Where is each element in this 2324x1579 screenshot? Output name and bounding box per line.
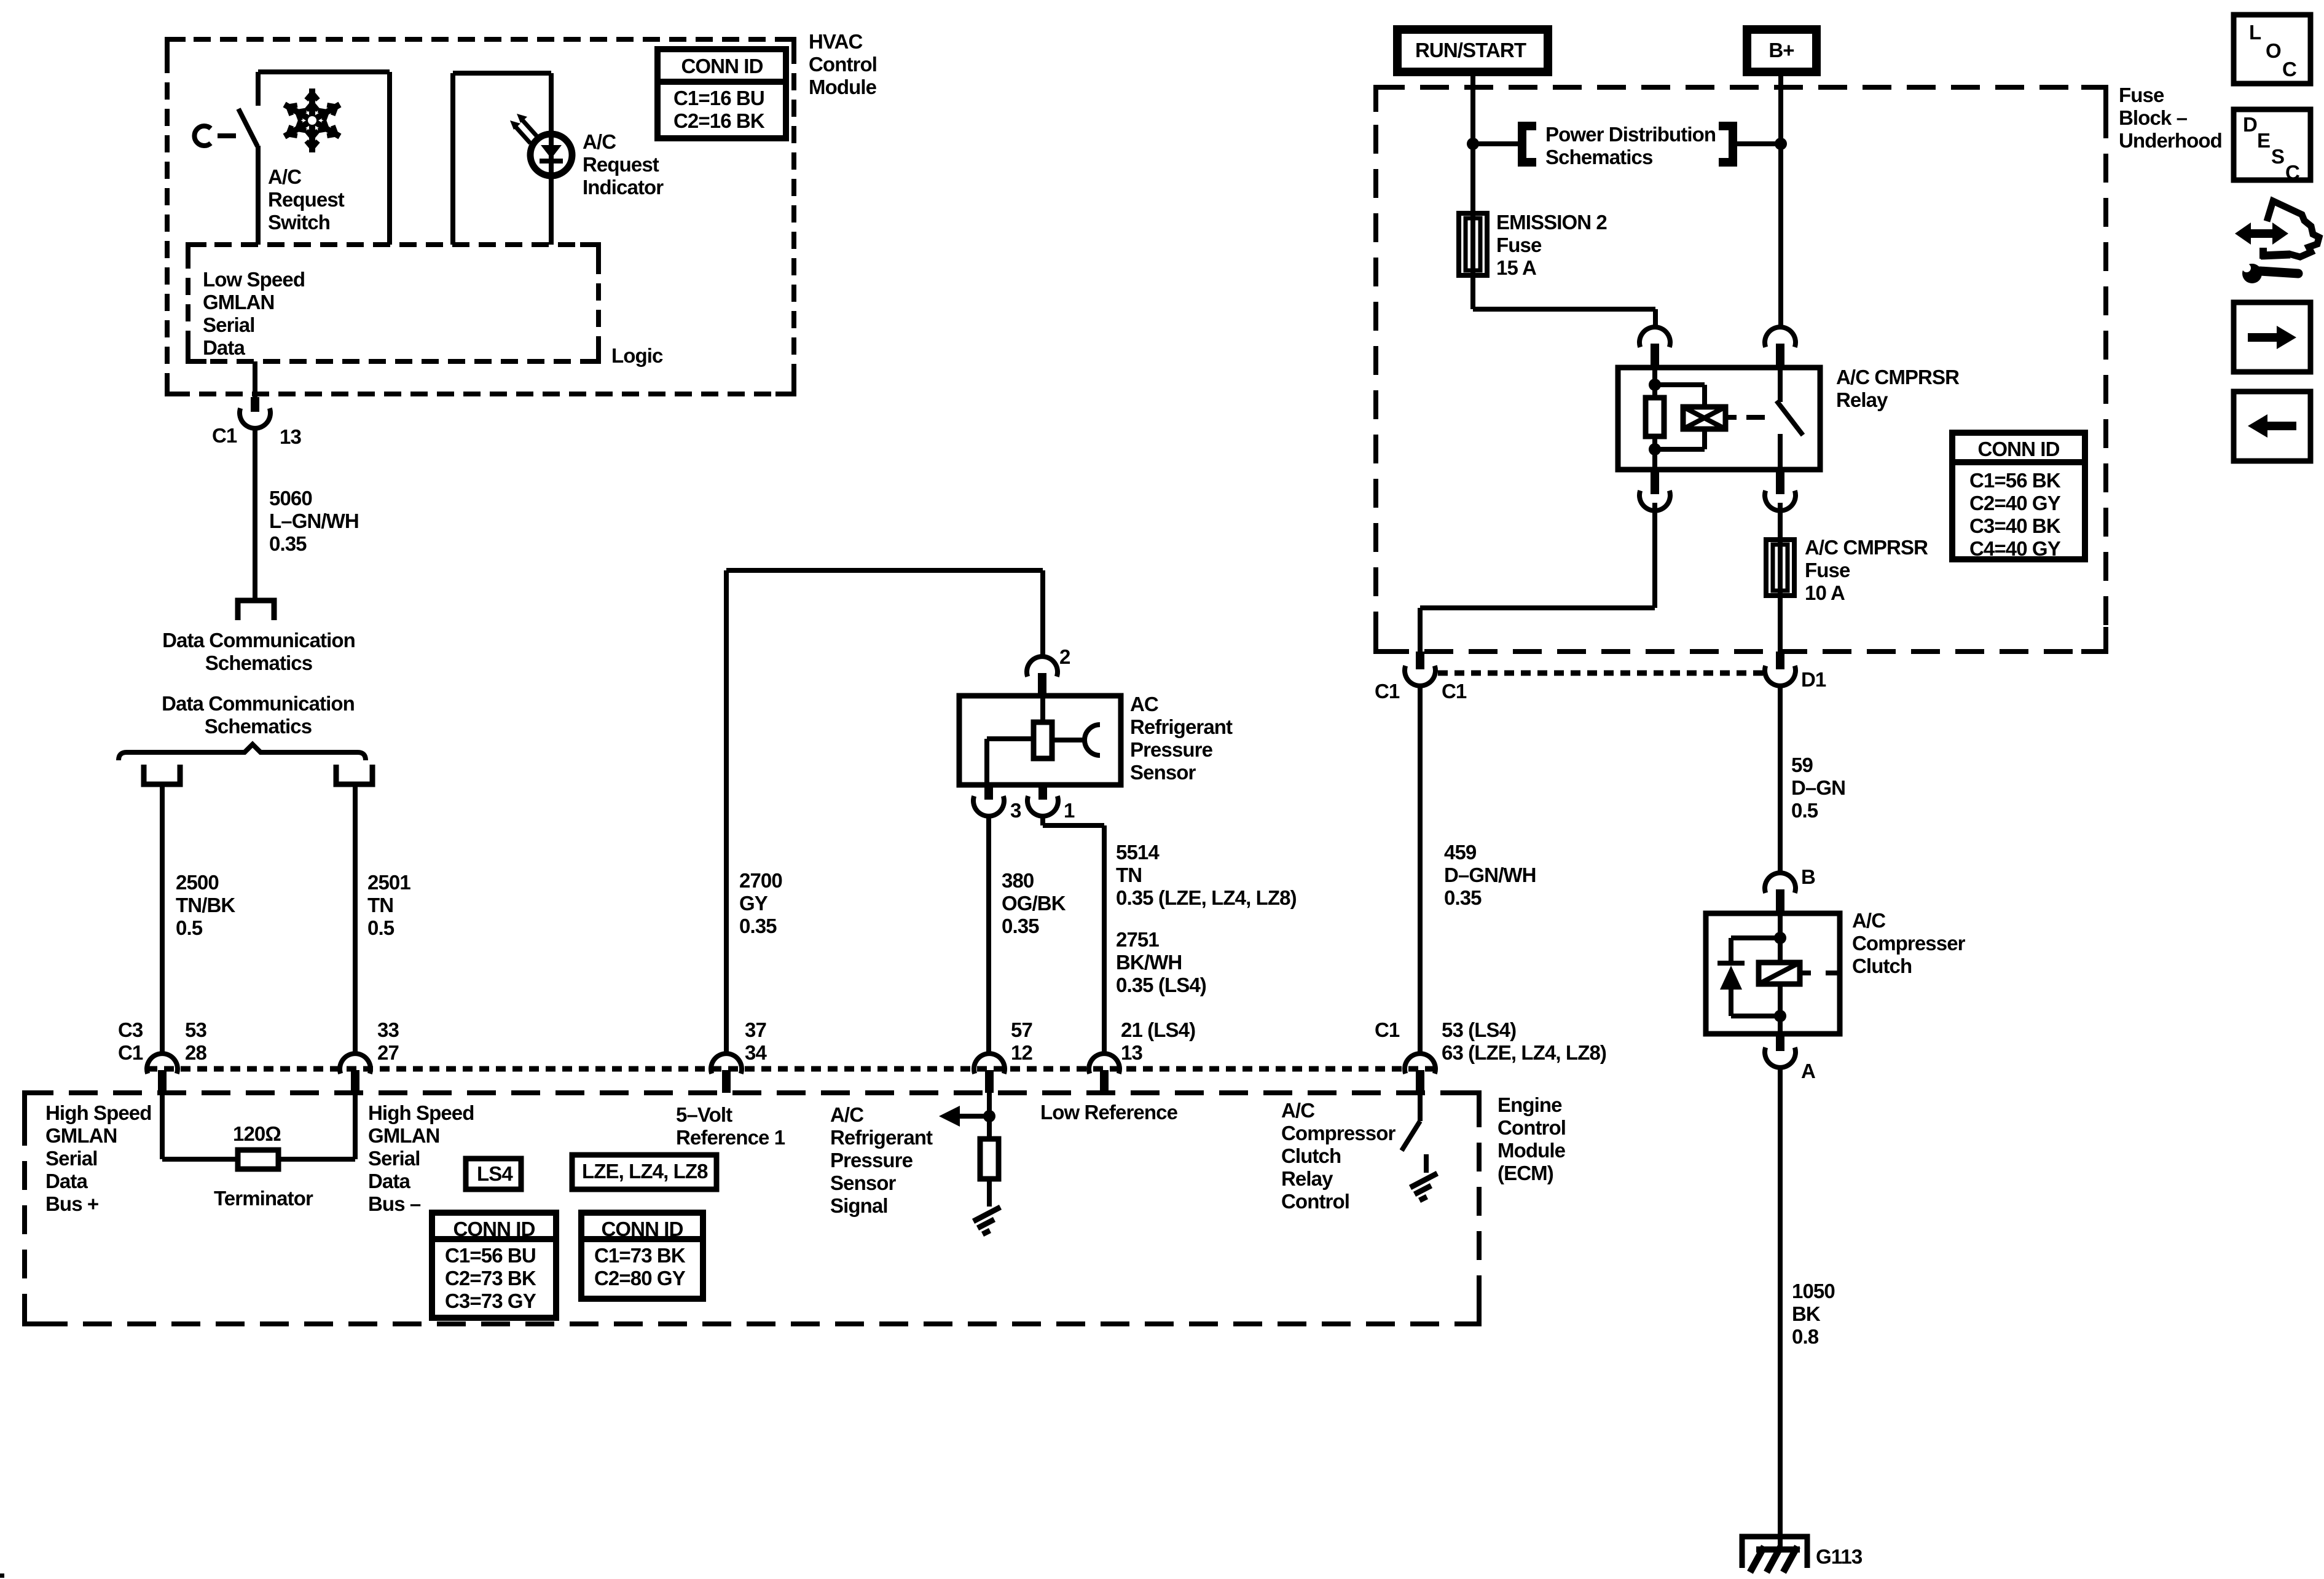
svg-text:Power Distribution: Power Distribution (1545, 123, 1716, 146)
svg-text:A: A (1801, 1060, 1815, 1082)
svg-text:Refrigerant: Refrigerant (1130, 715, 1233, 738)
svg-text:0.35: 0.35 (1444, 886, 1482, 909)
svg-text:RUN/START: RUN/START (1415, 39, 1526, 61)
ECM signal arrow (A/C refrigerant pressure sensor signal) (939, 1106, 989, 1127)
svg-text:LZE, LZ4, LZ8: LZE, LZ4, LZ8 (582, 1160, 708, 1183)
ECM driver switch blade (1402, 1121, 1420, 1151)
svg-text:Sensor: Sensor (1130, 761, 1196, 784)
svg-text:Relay: Relay (1281, 1167, 1333, 1190)
svg-text:AC: AC (1130, 693, 1158, 715)
A/C Request Switch box (258, 72, 390, 245)
svg-text:Module: Module (1498, 1139, 1566, 1162)
connector D1 (fuse block exit) (1765, 652, 1796, 686)
svg-text:A/C: A/C (268, 165, 301, 188)
svg-text:Low Speed: Low Speed (203, 268, 305, 291)
label wire 5060 L-GN/WH 0.35 (269, 487, 359, 555)
pin label 1 (1064, 799, 1075, 822)
connector ECM pin 21/13 (low ref) (1089, 1053, 1120, 1093)
svg-text:C2=40 GY: C2=40 GY (1969, 492, 2061, 514)
sensor element (resistor) (1034, 722, 1052, 758)
svg-text:Data Communication: Data Communication (162, 629, 355, 652)
clutch coil right stub (1800, 971, 1840, 975)
svg-text:C4=40 GY: C4=40 GY (1969, 537, 2061, 560)
svg-text:1: 1 (1064, 799, 1075, 822)
svg-text:Clutch: Clutch (1281, 1144, 1341, 1167)
svg-text:CONN ID: CONN ID (601, 1218, 683, 1240)
LED diode symbol (540, 145, 563, 161)
svg-text:Relay: Relay (1836, 388, 1888, 411)
svg-text:TN: TN (1116, 864, 1142, 886)
svg-text:Control: Control (1281, 1190, 1349, 1213)
connector pin 2 (pressure sensor) (1027, 656, 1058, 698)
svg-text:Fuse: Fuse (1496, 234, 1542, 256)
svg-text:Fuse: Fuse (2119, 84, 2164, 106)
svg-text:15 A: 15 A (1496, 256, 1536, 279)
svg-text:Bus +: Bus + (45, 1192, 98, 1215)
wire from Logic box to HVAC connector (253, 361, 257, 397)
pin label 53 28 (185, 1018, 206, 1064)
svg-text:GMLAN: GMLAN (203, 291, 274, 313)
sensor pressure port symbol (1085, 725, 1100, 755)
svg-text:Module: Module (809, 76, 877, 98)
relay coil (box with X) (1683, 407, 1725, 429)
svg-text:A/C: A/C (1281, 1099, 1314, 1122)
svg-text:A/C: A/C (583, 130, 616, 153)
clutch diode D (1717, 963, 1745, 1016)
ECM bus+ wire to terminator (162, 1093, 238, 1159)
label wire 5514 TN 0.35 (1116, 841, 1297, 909)
fuse F2 A/C CMPRSR 10A (1766, 540, 1794, 596)
fuse F1 EMISSION 2 15A (1459, 213, 1487, 275)
svg-text:L–GN/WH: L–GN/WH (269, 510, 359, 532)
relay switch blade (1776, 401, 1803, 435)
svg-text:Bus –: Bus – (368, 1192, 421, 1215)
svg-text:459: 459 (1444, 841, 1477, 864)
label wire 1050 BK 0.8 (1792, 1280, 1835, 1348)
svg-text:2700: 2700 (739, 869, 782, 892)
svg-text:Request: Request (583, 153, 659, 176)
label AC Refrigerant Pressure Sensor (1130, 693, 1233, 784)
svg-text:Schematics: Schematics (205, 715, 312, 738)
svg-text:BK: BK (1792, 1302, 1821, 1325)
snowflake icon (A/C request switch) (285, 89, 340, 152)
svg-text:C1: C1 (118, 1041, 143, 1064)
pin label C1 (ECM) (1375, 1018, 1400, 1041)
label HVAC Control Module (809, 30, 877, 98)
connector ECM pin 53/28 (bus+) (147, 1053, 178, 1093)
connector pin 3 (pressure sensor) (973, 785, 1004, 816)
relay switch fixed contact top (1778, 368, 1783, 402)
clutch coil (solenoid) (1759, 938, 1800, 1016)
svg-text:GMLAN: GMLAN (368, 1124, 439, 1147)
svg-text:Serial: Serial (368, 1147, 420, 1170)
svg-text:C1=73 BK: C1=73 BK (594, 1244, 686, 1267)
LZE LZ4 LZ8 box (572, 1155, 716, 1189)
relay coil branch (1655, 385, 1705, 449)
svg-text:CONN ID: CONN ID (1977, 438, 2059, 460)
pin label 57 12 (1011, 1018, 1032, 1064)
relay wire to box bottom (1652, 449, 1657, 470)
svg-text:A/C: A/C (830, 1103, 863, 1126)
svg-text:Data: Data (203, 336, 245, 359)
ECM driver ground stub (1424, 1154, 1429, 1173)
terminator resistor 120 ohm (238, 1150, 278, 1169)
wire 2500 TN/BK 0.5 (160, 787, 165, 1053)
svg-text:L: L (2249, 21, 2261, 44)
relay junction top (1649, 379, 1661, 391)
pin label 3 (1010, 799, 1021, 822)
relay switch fixed contact bottom (1778, 434, 1783, 470)
CONN ID table (ECM LZE) (581, 1213, 703, 1299)
wire fuse to D1 exit (1778, 596, 1783, 652)
label Data Communication Schematics (lower) (162, 692, 355, 738)
label Data Communication Schematics (upper) (162, 629, 355, 674)
svg-text:2: 2 (1059, 645, 1070, 668)
svg-text:C1=56 BU: C1=56 BU (445, 1244, 536, 1267)
A/C CMPRSR Relay box K1 (1618, 368, 1820, 470)
svg-text:Serial: Serial (45, 1147, 98, 1170)
wire 2501 TN 0.5 (353, 787, 358, 1053)
svg-text:Data Communication: Data Communication (162, 692, 355, 715)
svg-text:Indicator: Indicator (583, 176, 664, 199)
svg-text:Data: Data (368, 1170, 410, 1192)
ECM signal ground (973, 1207, 1000, 1234)
label 5-Volt Reference 1 (676, 1103, 785, 1149)
svg-text:0.8: 0.8 (1792, 1325, 1819, 1348)
Logic box (Low Speed GMLAN Serial Data, dashed) (188, 245, 599, 361)
svg-text:C3=40 BK: C3=40 BK (1969, 514, 2061, 537)
svg-text:A/C: A/C (1852, 909, 1885, 932)
relay junction bottom (1649, 443, 1661, 455)
svg-text:27: 27 (377, 1041, 399, 1064)
svg-text:Request: Request (268, 188, 345, 211)
svg-text:Sensor: Sensor (830, 1171, 897, 1194)
label A/C Request Indicator (583, 130, 664, 199)
pin label C1 (212, 424, 237, 447)
svg-text:HVAC: HVAC (809, 30, 863, 53)
A/C Compresser Clutch box (1706, 913, 1840, 1034)
wire junction to left bracket (1473, 141, 1518, 146)
svg-text:Pressure: Pressure (830, 1149, 913, 1171)
svg-text:CONN ID: CONN ID (681, 55, 763, 77)
wire 2700 GY 0.35 (5V ref) (726, 570, 1043, 1053)
ECM driver ground (1410, 1173, 1437, 1200)
off-page bracket left (Power Distribution) (1522, 126, 1536, 162)
label A/C Request Switch (268, 165, 345, 234)
label Low Speed GMLAN Serial Data (203, 268, 305, 359)
svg-text:Pressure: Pressure (1130, 738, 1213, 761)
svg-text:A/C CMPRSR: A/C CMPRSR (1836, 366, 1960, 388)
svg-text:2751: 2751 (1116, 928, 1159, 951)
wire right bracket to B+ feed (1733, 141, 1781, 146)
pin label C3 C1 (118, 1018, 143, 1064)
connector face dotted line (C1-D1) (1438, 671, 1765, 676)
A/C Request Indicator box (453, 73, 551, 245)
svg-text:Compresser: Compresser (1852, 932, 1966, 955)
svg-text:C1: C1 (1442, 680, 1467, 703)
svg-text:53 (LS4): 53 (LS4) (1442, 1018, 1516, 1041)
svg-text:C1=56 BK: C1=56 BK (1969, 469, 2061, 492)
svg-text:S: S (2271, 145, 2284, 168)
icon box LOC (2234, 15, 2310, 84)
label A/C CMPRSR Relay (1836, 366, 1960, 411)
svg-text:Block –: Block – (2119, 106, 2188, 129)
wire 380 OG/BK 0.35 (986, 816, 991, 1053)
CONN ID table (fuse block) (1952, 433, 2085, 560)
Fuse Block - Underhood outline (dashed box) (1376, 87, 2106, 652)
svg-text:CONN ID: CONN ID (453, 1218, 535, 1240)
svg-text:Terminator: Terminator (214, 1187, 313, 1210)
svg-text:Refrigerant: Refrigerant (830, 1126, 933, 1149)
connector ECM pin 37/34 (5V ref) (711, 1053, 742, 1093)
LED light arrow 2 (510, 120, 530, 143)
svg-text:53: 53 (185, 1018, 206, 1041)
label Low Reference (1040, 1101, 1178, 1124)
label wire 459 D-GN/WH 0.35 (1444, 841, 1536, 909)
svg-text:O: O (2266, 39, 2281, 62)
ECM connector face dotted line (147, 1066, 1437, 1072)
svg-text:D1: D1 (1801, 668, 1826, 691)
label High Speed GMLAN Serial Data Bus + (45, 1101, 152, 1215)
svg-text:0.35: 0.35 (739, 915, 777, 937)
svg-text:Serial: Serial (203, 313, 255, 336)
ECM internal resistor (980, 1139, 999, 1179)
svg-text:Logic: Logic (611, 344, 663, 367)
svg-text:5–Volt: 5–Volt (676, 1103, 732, 1126)
svg-text:BK/WH: BK/WH (1116, 951, 1182, 974)
connector pin 1 (pressure sensor) (1027, 785, 1058, 816)
svg-text:2501: 2501 (367, 871, 410, 894)
svg-text:C1: C1 (1375, 1018, 1400, 1041)
svg-text:Schematics: Schematics (1545, 146, 1652, 168)
CONN ID table (ECM LS4) (432, 1213, 556, 1318)
svg-text:LS4: LS4 (477, 1162, 513, 1185)
svg-text:Switch: Switch (268, 211, 330, 234)
connector relay pin 86 (coil) (1639, 327, 1670, 369)
relay wire resistor (1652, 385, 1657, 449)
svg-text:A/C CMPRSR: A/C CMPRSR (1805, 536, 1928, 559)
svg-text:120Ω: 120Ω (233, 1122, 281, 1145)
svg-text:0.5: 0.5 (176, 916, 203, 939)
ECM bus- wire to terminator (278, 1093, 355, 1159)
wire RUN/START feed (1470, 72, 1475, 213)
svg-text:C1: C1 (1375, 680, 1400, 703)
label A/C CMPRSR Fuse 10 A (1805, 536, 1928, 604)
wire relay 85 to fuse block exit (1420, 503, 1655, 652)
junction (RUN/START / power dist) (1467, 138, 1479, 150)
svg-text:D–GN: D–GN (1791, 776, 1845, 799)
svg-text:Low Reference: Low Reference (1040, 1101, 1178, 1124)
label Power Distribution Schematics (1545, 123, 1716, 168)
svg-text:0.35 (LS4): 0.35 (LS4) (1116, 974, 1206, 996)
relay mechanical link (dashed) (1746, 415, 1773, 420)
brace (Data Communication Schematics) (119, 744, 366, 760)
svg-text:C1: C1 (212, 424, 237, 447)
svg-text:33: 33 (377, 1018, 399, 1041)
pin label D1 (1801, 668, 1826, 691)
wire fuse to relay coil (1473, 275, 1655, 329)
svg-text:5060: 5060 (269, 487, 312, 510)
svg-text:13: 13 (280, 425, 301, 448)
svg-text:0.5: 0.5 (367, 916, 395, 939)
svg-text:GMLAN: GMLAN (45, 1124, 117, 1147)
label wire 2500 TN/BK 0.5 (176, 871, 235, 939)
clutch wire to pin A (1778, 1016, 1783, 1034)
connector clutch pin B (1765, 873, 1796, 915)
sensor internal wire right (to port) (1052, 738, 1086, 742)
LED light arrow 1 (517, 114, 537, 136)
svg-text:2500: 2500 (176, 871, 219, 894)
svg-text:C1=16 BU: C1=16 BU (673, 87, 764, 109)
pin label 21 13 (1121, 1018, 1195, 1064)
connector relay pin 87 (1765, 470, 1796, 511)
svg-text:13: 13 (1121, 1041, 1142, 1064)
pin label 37 34 (745, 1018, 767, 1064)
svg-text:Engine: Engine (1498, 1093, 1562, 1116)
svg-text:0.5: 0.5 (1791, 799, 1818, 822)
svg-text:37: 37 (745, 1018, 766, 1041)
label Engine Control Module (ECM) (1498, 1093, 1566, 1184)
wire 459 D-GN/WH 0.35 (1418, 686, 1423, 1053)
wire B+ to relay switch (1778, 72, 1783, 329)
junction (B+ / power dist) (1775, 138, 1787, 150)
svg-text:10 A: 10 A (1805, 581, 1845, 604)
power node RUN/START (1397, 30, 1548, 72)
svg-text:C3=73 GY: C3=73 GY (445, 1290, 536, 1312)
svg-text:G113: G113 (1816, 1545, 1863, 1568)
wire 59 D-GN 0.5 (1778, 686, 1783, 873)
HVAC Control Module outline (dashed box) (167, 39, 794, 394)
svg-text:Clutch: Clutch (1852, 955, 1912, 977)
label wire 2751 BK/WH 0.35 (1116, 928, 1206, 996)
power node B+ (1747, 30, 1816, 72)
label A/C Compresser Clutch (1852, 909, 1966, 977)
relay coil feed wire (1652, 368, 1657, 385)
svg-text:59: 59 (1791, 754, 1813, 776)
icon box arrow right (2234, 302, 2310, 372)
off-page bracket right (Power Distribution) (1719, 126, 1733, 162)
svg-text:D–GN/WH: D–GN/WH (1444, 864, 1536, 886)
pin label 2 (1059, 645, 1070, 668)
off-page reference to Data Communication Schematics (238, 600, 274, 620)
svg-text:TN/BK: TN/BK (176, 894, 235, 916)
connector clutch pin A (1765, 1033, 1796, 1068)
svg-text:5514: 5514 (1116, 841, 1160, 864)
ECM sensor signal wire (987, 1093, 992, 1139)
svg-text:Reference 1: Reference 1 (676, 1126, 785, 1149)
wire 5514/2751 (sensor low ref) (1043, 816, 1104, 1053)
svg-text:High Speed: High Speed (45, 1101, 152, 1124)
svg-text:Control: Control (809, 53, 877, 76)
svg-text:D: D (2243, 113, 2257, 136)
svg-text:0.35 (LZE, LZ4, LZ8): 0.35 (LZE, LZ4, LZ8) (1116, 886, 1297, 909)
label 120 ohm (233, 1122, 281, 1145)
clutch feed wire (1778, 913, 1783, 938)
connector ECM pin 53/63 (clutch relay ctl) (1405, 1053, 1435, 1093)
switch S1 blade (238, 109, 257, 146)
label wire 59 D-GN 0.5 (1791, 754, 1845, 822)
connector ECM pin 33/27 (bus-) (340, 1053, 371, 1093)
label wire 380 OG/BK 0.35 (1002, 869, 1066, 937)
connector ECM pin 57/12 (sensor signal) (974, 1053, 1005, 1093)
svg-text:0.35: 0.35 (269, 532, 307, 555)
svg-text:GY: GY (739, 892, 768, 915)
svg-text:Compressor: Compressor (1281, 1122, 1396, 1144)
svg-text:3: 3 (1010, 799, 1021, 822)
ECM resistor to ground wire (987, 1179, 992, 1207)
svg-text:21 (LS4): 21 (LS4) (1121, 1018, 1195, 1041)
wire relay 87 to A/C CMPRSR fuse (1778, 503, 1783, 540)
svg-text:Schematics: Schematics (205, 652, 312, 674)
connector C1 pin 13 (HVAC) (240, 397, 270, 428)
svg-text:34: 34 (745, 1041, 767, 1064)
clutch diode branch top (1731, 938, 1780, 961)
label Fuse Block - Underhood (2119, 84, 2222, 152)
svg-text:E: E (2257, 129, 2270, 152)
svg-text:Control: Control (1498, 1116, 1566, 1139)
svg-text:C3: C3 (118, 1018, 143, 1041)
CONN ID table (HVAC) (658, 49, 786, 138)
off-page bracket (bus +) (144, 765, 180, 784)
clutch junction top (1774, 932, 1786, 944)
switch S1 dash link (218, 133, 236, 138)
svg-text:EMISSION 2: EMISSION 2 (1496, 211, 1607, 234)
ECM signal junction (983, 1110, 995, 1122)
svg-text:C2=16 BK: C2=16 BK (673, 109, 765, 132)
svg-text:C: C (2282, 58, 2296, 81)
AC Refrigerant Pressure Sensor box B1 (959, 696, 1121, 785)
svg-text:(ECM): (ECM) (1498, 1162, 1553, 1184)
sensor internal wire (pin2 to element) (1040, 696, 1045, 722)
wire 5060 L-GN/WH 0.35 (253, 428, 257, 598)
label EMISSION 2 Fuse 15 A (1496, 211, 1607, 279)
sensor internal wire left (to pin 3) (987, 739, 1034, 785)
ECM clutch relay control driver wire (1418, 1093, 1423, 1121)
label G113 (1816, 1545, 1863, 1568)
label wire 2700 GY 0.35 (739, 869, 782, 937)
label High Speed GMLAN Serial Data Bus - (368, 1101, 474, 1215)
svg-text:C2=73 BK: C2=73 BK (445, 1267, 536, 1290)
relay coil right stub (1725, 415, 1737, 420)
pin label 33 27 (377, 1018, 399, 1064)
ground G113 (1742, 1537, 1807, 1572)
svg-text:Signal: Signal (830, 1194, 888, 1217)
icon box arrow left (2234, 392, 2310, 461)
svg-text:0.35: 0.35 (1002, 915, 1039, 937)
switch S1 contact cup (194, 126, 211, 146)
svg-text:Data: Data (45, 1170, 88, 1192)
connector relay pin 30 (switch) (1765, 327, 1796, 369)
svg-text:C: C (2285, 161, 2299, 184)
label Terminator (214, 1187, 313, 1210)
label A/C Compressor Clutch Relay Control (1281, 1099, 1396, 1213)
page artifact dot (bottom-left) (0, 1573, 4, 1578)
pin label A (1801, 1060, 1815, 1082)
Engine Control Module outline (dashed box) (25, 1093, 1479, 1324)
label Logic (611, 344, 663, 367)
svg-text:B: B (1801, 865, 1815, 888)
svg-text:63 (LZE, LZ4, LZ8): 63 (LZE, LZ4, LZ8) (1442, 1041, 1606, 1064)
LS4 box (466, 1159, 521, 1189)
svg-text:28: 28 (185, 1041, 206, 1064)
clutch junction bottom (1774, 1010, 1786, 1022)
connector relay pin 85 (1639, 470, 1670, 511)
svg-text:C2=80 GY: C2=80 GY (594, 1267, 686, 1290)
svg-text:Underhood: Underhood (2119, 129, 2222, 152)
icon vehicle diagnostics (car with arrows and wrench) (2235, 201, 2319, 283)
clutch diode branch bottom (1731, 1014, 1780, 1018)
wire 1050 BK 0.8 (1778, 1068, 1783, 1548)
